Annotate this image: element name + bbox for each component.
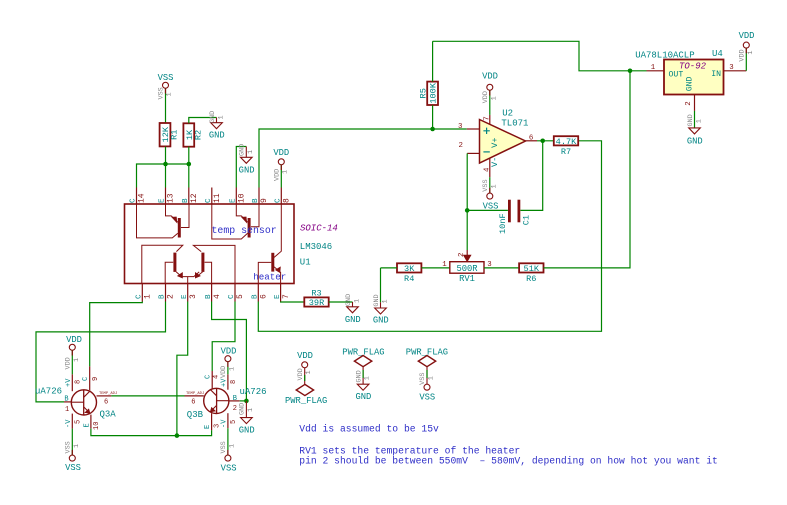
- U1 pin 4 (B) bottom: [205, 284, 222, 302]
- svg-text:R3: R3: [311, 288, 321, 298]
- U2 pin 4 (VSS): [483, 158, 491, 177]
- wire Q3B base to junction: [240, 400, 247, 402]
- svg-text:VSS: VSS: [419, 373, 427, 385]
- U4 pin 1 OUT: [647, 64, 665, 72]
- wire VDD to U4 IN: [745, 48, 747, 71]
- svg-text:GND: GND: [355, 392, 371, 402]
- svg-text:uA726: uA726: [35, 387, 62, 397]
- U2 pin 6 output: [526, 134, 538, 142]
- U1 pin 3 (E) bottom: [181, 284, 198, 302]
- Q3B pin 2 base: [229, 395, 240, 413]
- svg-text:GND: GND: [239, 144, 247, 156]
- U1 pin 9 (B) top: [252, 188, 269, 205]
- svg-text:GND: GND: [239, 403, 247, 415]
- svg-text:B: B: [233, 395, 237, 403]
- ground symbol (R4): [373, 294, 390, 325]
- svg-text:9: 9: [92, 377, 100, 381]
- regulator U4 UA78L10ACLP body: [664, 60, 724, 95]
- svg-text:2: 2: [685, 101, 693, 105]
- svg-text:GND: GND: [373, 315, 389, 325]
- svg-text:2: 2: [233, 405, 237, 413]
- wire U1 pin1 to Q3A collector: [90, 302, 143, 367]
- junction (output): [540, 139, 545, 144]
- U1 internal transistor heater (pins 8/6/7): [258, 204, 281, 284]
- svg-text:2: 2: [458, 253, 466, 257]
- U1 pin 14 (C) top: [130, 188, 147, 205]
- svg-text:TL071: TL071: [501, 119, 528, 129]
- svg-text:1: 1: [490, 96, 498, 100]
- svg-text:VDD: VDD: [273, 148, 289, 158]
- svg-text:B: B: [159, 294, 167, 299]
- wire U1 pin5 to Q3B collector: [212, 302, 235, 372]
- wire R5 top lead: [432, 41, 434, 81]
- wire U1 pin10 to GND: [236, 147, 246, 188]
- transistor Q3A uA726: [71, 390, 96, 415]
- svg-text:1: 1: [247, 150, 255, 154]
- svg-text:10: 10: [93, 422, 101, 430]
- svg-text:VSS: VSS: [65, 463, 81, 473]
- svg-text:7: 7: [484, 116, 492, 120]
- resistor R1 12K: [160, 123, 180, 146]
- U1 internal transistor pair left (pins 1/2/3): [142, 245, 199, 283]
- svg-text:B: B: [252, 198, 260, 203]
- power flag 2 (GND): [342, 348, 384, 402]
- junction (R5 / op-amp +): [430, 127, 435, 132]
- wire U2 pin4 to VSS: [489, 177, 491, 193]
- svg-text:VDD: VDD: [65, 357, 73, 369]
- svg-text:B: B: [205, 294, 213, 299]
- svg-text:4: 4: [213, 294, 222, 299]
- svg-text:1: 1: [428, 376, 436, 380]
- wire op-amp + long wire to U1 pin 9: [259, 129, 433, 188]
- svg-text:Q3B: Q3B: [187, 410, 204, 420]
- wire VDD rail top (U4 OUT to R5): [433, 41, 647, 71]
- U1 internal transistor temp sensor (pins 11/10/9): [212, 204, 259, 239]
- svg-text:uA726: uA726: [240, 387, 267, 397]
- svg-text:C1: C1: [521, 215, 531, 225]
- svg-text:V+: V+: [490, 137, 500, 147]
- power symbol VDD (Q3A): [65, 335, 82, 370]
- svg-text:E: E: [230, 198, 238, 203]
- svg-text:1: 1: [144, 294, 153, 299]
- wire junction bus to pin 14: [137, 164, 189, 188]
- wire VDD to Q3B +V: [227, 362, 229, 375]
- U1 pin 7 (E) bottom: [274, 284, 291, 302]
- svg-text:VSS: VSS: [158, 87, 166, 99]
- svg-text:C: C: [130, 198, 138, 203]
- svg-text:GND: GND: [345, 315, 361, 325]
- svg-text:2: 2: [459, 142, 463, 150]
- wire R4 to RV1 pin1: [422, 267, 450, 269]
- resistor R2 1K: [183, 123, 203, 146]
- svg-text:3: 3: [458, 123, 462, 131]
- svg-text:heater: heater: [253, 272, 286, 283]
- svg-text:10: 10: [238, 193, 247, 203]
- svg-text:8: 8: [283, 198, 292, 203]
- svg-text:1: 1: [651, 64, 656, 72]
- svg-text:1: 1: [490, 184, 498, 188]
- svg-text:8: 8: [74, 380, 82, 384]
- svg-text:1: 1: [305, 370, 313, 374]
- wire VDD to Q3A +V: [71, 350, 73, 374]
- U2 pin 2 (-): [459, 142, 501, 167]
- svg-text:GND: GND: [239, 426, 255, 436]
- svg-text:R5: R5: [418, 88, 428, 98]
- svg-text:U4: U4: [712, 49, 723, 59]
- svg-text:TEMP_ADJ: TEMP_ADJ: [99, 392, 117, 396]
- resistor R7 4.7K: [554, 136, 578, 157]
- red pin stubs at power symbol circles: [165, 88, 167, 93]
- svg-text:B: B: [182, 198, 190, 203]
- svg-text:12: 12: [190, 193, 199, 203]
- wire R4 left to GND: [381, 267, 398, 269]
- svg-text:8: 8: [230, 380, 238, 384]
- power symbol VSS (Q3B): [220, 441, 236, 473]
- svg-text:51K: 51K: [524, 264, 540, 274]
- resistor R5 100K: [418, 82, 438, 105]
- svg-text:VDD: VDD: [739, 31, 755, 41]
- svg-text:GND: GND: [239, 166, 255, 176]
- power flag 1 (VDD): [285, 351, 327, 406]
- wire U4 pin2 to GND: [694, 111, 696, 128]
- op-amp U2 TL071 body: [480, 120, 526, 164]
- svg-text:VDD: VDD: [66, 335, 82, 345]
- ground symbol (R3): [345, 294, 362, 325]
- svg-text:5: 5: [230, 420, 238, 424]
- Q3B pin 6 TEMP_ADJ: [185, 392, 205, 407]
- svg-text:39R: 39R: [309, 298, 324, 308]
- svg-text:PWR_FLAG: PWR_FLAG: [285, 396, 327, 406]
- U1 pin 11 (C) top: [205, 188, 222, 205]
- U1 pin 12 (B) top: [182, 188, 199, 205]
- svg-text:VDD: VDD: [482, 72, 498, 82]
- power symbol VSS (top of R1): [158, 73, 174, 100]
- U1 pin 6 (B) bottom: [252, 284, 269, 302]
- transistor Q3B uA726: [204, 388, 229, 413]
- junction (Q3B base): [244, 399, 249, 404]
- svg-text:E: E: [274, 294, 282, 299]
- power flag 3 (VSS): [406, 348, 448, 403]
- wire VDD to U2 pin7: [489, 90, 491, 115]
- svg-text:VSS: VSS: [419, 393, 435, 403]
- U1 pin 1 (C) bottom: [136, 284, 153, 302]
- svg-text:14: 14: [138, 193, 147, 203]
- svg-text:VDD: VDD: [220, 366, 228, 378]
- svg-text:V-: V-: [490, 157, 500, 167]
- junction (R1 bottom): [163, 162, 168, 167]
- junction (emitters): [175, 433, 180, 438]
- wire R1 bottom to pins 14/13 junction: [165, 147, 167, 188]
- svg-text:E: E: [159, 198, 167, 203]
- svg-text:B: B: [64, 396, 68, 404]
- Q3B pin 5 -V: [221, 413, 238, 428]
- power symbol VSS (U2 pin 4): [482, 179, 498, 211]
- Q3A pin 9 collector: [82, 366, 100, 390]
- ground symbol (R2 top): [209, 111, 226, 141]
- U1 pin 13 (E) top: [159, 188, 176, 205]
- Q3B pin 3 emitter: [204, 413, 222, 430]
- svg-text:3: 3: [189, 294, 198, 299]
- U1 internal transistor (pins 14/13/12): [137, 204, 190, 238]
- wire R5 bottom to op-amp +: [433, 105, 467, 129]
- Q3A pin 5 -V: [65, 414, 82, 429]
- U1 pin 10 (E) top: [230, 188, 247, 205]
- power symbol VDD (U2 pin 7): [482, 72, 498, 104]
- junction (inverting node): [465, 208, 470, 213]
- svg-text:9: 9: [260, 198, 269, 203]
- wire U1 pin3 to emitter junction: [177, 302, 188, 436]
- svg-text:E: E: [83, 423, 91, 427]
- U4 pin 3 IN: [724, 64, 747, 72]
- svg-text:6: 6: [529, 134, 533, 142]
- U4 pin 2 GND: [685, 95, 695, 111]
- svg-text:-V: -V: [221, 419, 229, 428]
- wire VSS to R1: [165, 88, 167, 123]
- ground symbol (U4): [687, 114, 704, 146]
- resistor R6 51K: [519, 263, 543, 284]
- svg-text:1: 1: [364, 376, 372, 380]
- svg-text:VSS: VSS: [158, 73, 174, 83]
- svg-text:GND: GND: [685, 76, 694, 91]
- svg-text:U2: U2: [502, 109, 513, 119]
- svg-text:4: 4: [483, 167, 491, 172]
- wire Q3B -V to VSS: [227, 428, 229, 455]
- svg-text:GND: GND: [209, 111, 217, 123]
- svg-text:+V: +V: [65, 378, 73, 387]
- svg-text:temp sensor: temp sensor: [212, 225, 277, 236]
- svg-text:10nF: 10nF: [498, 213, 508, 234]
- wire U1 pin7 to R3: [281, 301, 305, 304]
- svg-text:6: 6: [104, 399, 108, 407]
- svg-text:VDD: VDD: [739, 49, 747, 61]
- U2 pin 7 (VDD): [484, 115, 492, 124]
- svg-text:3: 3: [729, 64, 733, 72]
- svg-text:C: C: [228, 294, 236, 299]
- svg-text:VSS: VSS: [221, 463, 237, 473]
- svg-text:R1: R1: [170, 130, 180, 140]
- svg-text:Q3A: Q3A: [100, 409, 117, 419]
- wire Q3A -V to VSS: [71, 429, 73, 456]
- Q3A pin 10 emitter: [83, 415, 101, 430]
- power symbol VDD (U1 pin 8): [273, 148, 289, 181]
- wire output to R7: [537, 140, 554, 142]
- svg-text:500R: 500R: [456, 264, 478, 274]
- svg-text:VDD: VDD: [297, 368, 305, 380]
- capacitor C1 10nF: [498, 200, 531, 234]
- svg-text:1: 1: [217, 115, 225, 119]
- svg-text:1: 1: [747, 51, 755, 55]
- wire R2 bottom to pin 12: [188, 147, 190, 188]
- resistor R4 3K: [397, 263, 421, 284]
- Q3A pin 1 base: [64, 396, 71, 415]
- svg-text:5: 5: [236, 294, 245, 299]
- svg-text:RV1: RV1: [459, 274, 475, 284]
- svg-text:TEMP_ADJ: TEMP_ADJ: [186, 392, 204, 396]
- svg-text:+V: +V: [221, 378, 229, 387]
- svg-text:GND: GND: [373, 294, 381, 306]
- svg-text:6: 6: [191, 399, 195, 407]
- svg-text:R7: R7: [561, 147, 571, 157]
- power symbol VDD (Q3B): [220, 347, 236, 379]
- wire U1 pin6 from heater base long wire: [258, 141, 601, 331]
- wire RV1 pin3 to R6: [484, 267, 519, 269]
- wire output down to C1: [520, 141, 542, 211]
- wire C1 to inverting node: [467, 209, 508, 211]
- svg-text:2: 2: [167, 294, 176, 299]
- svg-text:6: 6: [260, 294, 269, 299]
- wire R3 to GND: [329, 301, 353, 303]
- power symbol VSS (Q3A): [65, 441, 81, 473]
- svg-text:1: 1: [695, 119, 703, 123]
- wire U1 pin4 to Q3B base: [212, 302, 247, 401]
- svg-text:1: 1: [228, 367, 236, 371]
- svg-text:VDD: VDD: [482, 91, 490, 103]
- Q3B pin 8 +V: [221, 374, 238, 389]
- svg-text:C: C: [82, 377, 90, 381]
- svg-text:1: 1: [353, 299, 361, 303]
- U2 pin 3 (+): [458, 123, 500, 148]
- svg-text:C: C: [275, 198, 283, 203]
- junction (R2 bottom): [187, 162, 192, 167]
- svg-text:GND: GND: [687, 114, 695, 126]
- svg-text:R6: R6: [526, 274, 536, 284]
- svg-text:pin 2 should be between 550mV: pin 2 should be between 550mV – 580mV, d…: [299, 455, 718, 466]
- svg-text:C: C: [205, 198, 213, 203]
- svg-text:4: 4: [212, 375, 220, 379]
- svg-text:C: C: [136, 294, 144, 299]
- svg-text:1: 1: [381, 299, 389, 303]
- wire U1 pin2 to Q3A base: [36, 302, 166, 402]
- svg-text:Vdd is assumed to be 15v: Vdd is assumed to be 15v: [299, 424, 439, 435]
- svg-text:1: 1: [228, 444, 236, 448]
- svg-text:VSS: VSS: [482, 179, 490, 191]
- wire Q3A pin6 to Q3B pin6: [111, 395, 184, 397]
- svg-text:LM3046: LM3046: [300, 242, 332, 252]
- ground symbol (Q3B base): [239, 401, 256, 436]
- svg-text:VDD: VDD: [274, 169, 282, 181]
- svg-text:1: 1: [281, 170, 289, 174]
- svg-text:1: 1: [65, 406, 69, 414]
- U1 pin 5 (C) bottom: [228, 284, 245, 302]
- junction (U4 OUT node): [628, 69, 633, 74]
- svg-text:13: 13: [167, 193, 176, 203]
- svg-text:U1: U1: [300, 258, 311, 268]
- svg-text:1: 1: [73, 444, 81, 448]
- svg-text:IN: IN: [711, 70, 721, 79]
- svg-text:4.7K: 4.7K: [556, 137, 577, 147]
- svg-text:3K: 3K: [404, 264, 415, 274]
- wire R2 top to GND: [189, 118, 217, 124]
- power symbol VDD (U4 IN): [739, 31, 755, 62]
- svg-text:GND: GND: [345, 294, 353, 306]
- svg-text:GND: GND: [687, 136, 703, 146]
- svg-text:VSS: VSS: [220, 441, 228, 453]
- svg-text:VSS: VSS: [65, 441, 73, 453]
- U1 pin 2 (B) bottom: [159, 284, 176, 302]
- U1 internal transistor pair right (pins 5/4/3): [193, 245, 235, 283]
- svg-text:OUT: OUT: [669, 71, 684, 80]
- svg-text:VDD: VDD: [221, 347, 237, 357]
- svg-text:1: 1: [166, 92, 174, 96]
- svg-text:11: 11: [213, 193, 222, 203]
- wire op-amp pin2 down: [466, 153, 468, 250]
- svg-text:B: B: [252, 294, 260, 299]
- svg-text:R2: R2: [193, 130, 203, 140]
- wire R6 to VDD rail riser: [544, 71, 631, 268]
- svg-text:7: 7: [282, 294, 291, 299]
- svg-text:5: 5: [74, 420, 82, 424]
- potentiometer RV1 500R: [442, 250, 491, 284]
- svg-text:100K: 100K: [429, 82, 439, 103]
- IC U1 LM3046 body: [125, 204, 295, 284]
- U1 pin 8 (C) top: [275, 188, 292, 205]
- wire VDD to U1 pin 8: [280, 165, 282, 188]
- svg-text:E: E: [204, 425, 212, 429]
- svg-text:VDD: VDD: [297, 351, 313, 361]
- svg-text:GND: GND: [355, 370, 363, 382]
- svg-text:E: E: [181, 294, 189, 299]
- svg-text:-V: -V: [65, 419, 73, 428]
- svg-text:UA78L10ACLP: UA78L10ACLP: [635, 51, 694, 61]
- svg-text:GND: GND: [209, 130, 225, 140]
- Q3B pin 4 collector: [205, 371, 221, 389]
- Q3A pin 6 TEMP_ADJ: [97, 392, 118, 407]
- svg-text:R4: R4: [404, 274, 414, 284]
- svg-text:1: 1: [442, 261, 447, 269]
- svg-text:1: 1: [247, 408, 255, 412]
- resistor R3 39R: [304, 288, 328, 308]
- Q3A pin 8 +V: [65, 374, 82, 391]
- svg-text:SOIC-14: SOIC-14: [300, 224, 338, 234]
- svg-text:1: 1: [73, 358, 81, 362]
- wire emitters Q3A-Q3B: [91, 429, 212, 436]
- ground symbol (U1 pin 10): [239, 144, 256, 176]
